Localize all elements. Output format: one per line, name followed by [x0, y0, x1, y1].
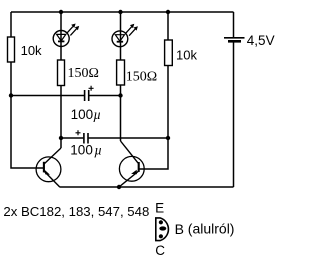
svg-text:µ: µ: [94, 143, 102, 158]
svg-text:10k: 10k: [21, 43, 42, 58]
svg-text:100: 100: [71, 107, 94, 122]
svg-text:B: B: [175, 221, 184, 237]
svg-text:µ: µ: [93, 107, 101, 122]
svg-text:(alulról): (alulról): [188, 221, 235, 237]
svg-text:150Ω: 150Ω: [126, 69, 157, 84]
svg-text:C: C: [155, 243, 165, 258]
svg-text:10k: 10k: [176, 47, 197, 62]
svg-text:100: 100: [70, 143, 93, 158]
svg-text:150Ω: 150Ω: [68, 66, 99, 81]
svg-text:2x BC182, 183, 547, 548: 2x BC182, 183, 547, 548: [3, 204, 149, 219]
svg-text:E: E: [155, 201, 164, 216]
svg-text:4,5V: 4,5V: [247, 33, 275, 48]
